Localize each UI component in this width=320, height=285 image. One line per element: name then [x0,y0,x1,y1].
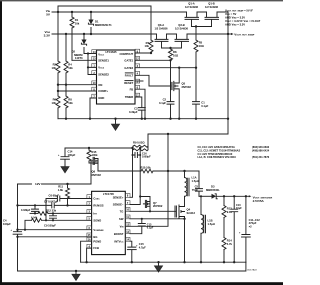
capacitor C6 68pF COSC [46,193,92,220]
ground symbol top section [115,119,117,124]
inductor L1A 1.5uH [183,170,199,196]
svg-text:1/2 Si4936: 1/2 Si4936 [185,5,199,9]
svg-text:D2: D2 [72,49,76,53]
U1 pin 14 VCC1 [92,50,105,57]
svg-text:R8: R8 [68,97,72,101]
svg-text:C3: C3 [134,106,138,110]
capacitor C5 75pF [192,171,203,196]
svg-text:2N7002: 2N7002 [92,173,102,177]
svg-text:MBRM: MBRM [74,53,83,57]
op-amp U1 LTC1645 hot swap controller box [97,50,136,104]
capacitor C1 0.1uF [193,68,209,119]
resistor R7 10k COMPOUT pullup [135,40,153,54]
svg-text:R7: R7 [146,41,150,45]
svg-text:C15: C15 [139,242,144,246]
svg-text:470μF: 470μF [249,221,257,225]
svg-text:10Ω: 10Ω [173,54,179,58]
svg-text:TIMER: TIMER [125,95,133,99]
resistor R4 10k [64,34,73,96]
svg-text:C1: C1 [201,100,205,104]
wire SENSE- column [130,148,140,205]
svg-text:C5: C5 [195,185,199,189]
svg-text:BG: BG [93,235,97,239]
U1 pin 6 FB [130,85,140,91]
wire ON to divider [58,84,97,86]
wire switcher input rail [65,147,132,149]
svg-text:0.039μF: 0.039μF [21,209,31,212]
wire BG [18,236,92,238]
svg-text:Q1-A: Q1-A [188,1,194,5]
diode D2 MBRM140T3 [72,34,97,60]
svg-text:75pF: 75pF [192,188,199,192]
svg-text:(561) 241-7876: (561) 241-7876 [252,156,270,159]
wire VCC2/SENSE2 link [88,54,97,75]
capacitor C11 C12 470uF output [239,196,260,262]
svg-text:SENSE–: SENSE– [113,203,124,207]
wire top rail to R7 [58,6,151,40]
svg-text:R12 33k: R12 33k [46,209,57,213]
resistor R11 1.8k softstart pullup [58,183,70,206]
wire COMP+ to divider [58,90,97,92]
svg-text:R1: R1 [75,18,79,22]
resistor R15 100k [87,148,98,163]
U2 pin 10 TG [120,208,130,214]
svg-text:6.04k: 6.04k [31,216,38,219]
note top right conditions text [225,9,261,27]
svg-text:RESET: RESET [124,81,133,85]
U1 pin 11 TIMER [125,93,140,99]
svg-text:Q5: Q5 [182,82,186,86]
svg-text:1/2 Si4936: 1/2 Si4936 [205,5,219,9]
transistor Q3-B 1/2 Si4936 [175,23,189,48]
svg-text:4.7μF: 4.7μF [139,246,146,250]
svg-text:D1: D1 [95,19,99,23]
svg-text:0.1μF: 0.1μF [159,101,166,105]
wire GATE1 [135,59,171,61]
resistor R2 10k [52,12,60,96]
svg-text:BOOST: BOOST [114,232,124,236]
svg-text:SGND: SGND [93,218,101,222]
svg-text:Q4: Q4 [187,208,191,212]
wire SENSE+ column [130,148,133,197]
svg-text:12V: 12V [35,182,41,186]
wire VOSENSE [18,229,92,231]
svg-text:10k: 10k [52,66,57,70]
wire SW [130,218,185,220]
svg-text:PGND: PGND [93,239,101,243]
resistor R9 0.02 ohm sense [132,141,148,151]
wire FB to ground bus [135,89,145,119]
wire FAULT to Q5 gate [135,75,171,86]
inductor L1B 1.5uH [200,195,215,262]
capacitor C3 0.39uF TIMER [129,97,145,119]
svg-text:D3: D3 [211,184,215,188]
resistor R5 10 ohm Q1 gate [194,27,205,68]
capacitor C8 0.039uF [21,204,39,214]
svg-text:L1A, B: COILTRONICS VP2-0016: L1A, B: COILTRONICS VP2-0016 [198,156,237,159]
wire Q6 source to R10 rail [98,170,141,172]
svg-text:Q3-A: Q3-A [158,23,164,27]
svg-text:1.5μH: 1.5μH [192,179,199,183]
svg-text:R15: R15 [92,150,97,154]
U2 pin 8 SENSE+ [113,194,130,200]
transistor Q6 2N7002 [91,157,101,184]
wire ground bus bottom section [81,261,246,263]
U1 pin 2 SENSE2 [92,71,110,77]
svg-text:3.3V: 3.3V [44,34,51,38]
wire VIN 5V rail [52,11,228,13]
U2 pin 2 RUN/SS [87,202,104,208]
svg-text:C14: C14 [68,150,73,154]
ground symbol C14 [64,165,66,167]
capacitor C2 0.1uF [159,60,174,118]
U1 pin 9 COMPOUT [119,49,139,56]
U2 pin 1 COSC [87,195,100,201]
wire VIN2 3.3V rail [52,33,228,35]
svg-text:C6 68pF: C6 68pF [49,193,60,197]
svg-text:100k: 100k [92,153,98,157]
svg-text:SENSE+: SENSE+ [113,195,124,199]
transistor Q7 2N7002 [139,195,163,212]
svg-text:140T3: 140T3 [75,56,83,60]
svg-text:10Ω: 10Ω [199,44,205,48]
svg-text:C11–C12: C11–C12 [249,218,261,222]
U2 pin 11 SW [119,215,130,221]
U1 pin 8 COMP+ [92,87,109,93]
U1 pin 12 GATE1 [124,57,139,63]
svg-text:GATE1: GATE1 [124,58,133,62]
svg-text:R5: R5 [199,41,203,45]
svg-text:10k: 10k [68,101,73,105]
resistor R8a 10k [64,96,73,119]
ground symbol outer return [75,271,77,274]
svg-text:10μF: 10μF [236,207,242,210]
border top edge [0,0,283,1]
wire GATE2 [135,67,196,69]
svg-text:R9 0.02Ω: R9 0.02Ω [133,141,145,145]
svg-text:R4: R4 [68,62,72,66]
svg-text:R10 10k: R10 10k [141,166,152,170]
capacitor C4 100uF 12V bypass [3,184,22,271]
svg-text:100μF: 100μF [68,153,76,157]
U2 pin 13 VIN [120,223,130,229]
capacitor C10 10uF [231,196,243,262]
svg-text:(408) 986-0424: (408) 986-0424 [252,149,270,152]
U2 pin 5 SGND [87,217,101,223]
U1 pin 4 FAULT [125,72,140,78]
svg-text:COMP+: COMP+ [98,89,108,93]
U2 pin 7 SENSE- [113,201,130,207]
junction dots on VIN2 rail [65,33,67,35]
resistor R13 9.1k [222,196,233,237]
svg-text:0.1μF: 0.1μF [147,226,154,229]
wire hot swap output to switcher VIN [148,134,228,144]
node VIN 5V label [46,9,51,17]
svg-text:10k: 10k [145,44,150,48]
U1 pin 10 ON [92,81,103,87]
svg-text:LTC1645: LTC1645 [105,50,117,54]
U1 pin 3 GATE2 [124,64,139,70]
svg-text:4.7k: 4.7k [227,242,233,246]
wire TG [130,210,175,212]
note parts list text [198,146,270,159]
svg-text:0.1μF: 0.1μF [201,104,208,108]
capacitor C7 0.047uF RUN/SS [16,200,91,208]
wire VIN column to LTC1735 [125,134,168,226]
svg-text:R2: R2 [53,62,57,66]
resistor R12 33k ITH [30,209,92,216]
border left edge [0,0,2,285]
U1 pin 13 SENSE1 [92,57,110,63]
svg-text:Si4412: Si4412 [187,211,196,215]
svg-text:C9 100pF: C9 100pF [44,224,56,228]
wire FCB to bus [87,248,92,262]
svg-text:1/2 Si4936: 1/2 Si4936 [175,27,189,31]
U2 pin 15 BG [87,233,98,239]
junction dots bottom ground bus [131,261,133,263]
svg-text:SW: SW [119,217,124,221]
svg-text:MBR0520LT1: MBR0520LT1 [95,23,112,27]
capacitor C9 100pF ITH filter [44,212,57,227]
resistor R8 10 ohm Q3 gate [169,48,179,60]
svg-text:FCB: FCB [93,246,99,250]
svg-text:2.5V/5A: 2.5V/5A [253,199,265,203]
wire SENSE1 to R1 [72,59,97,61]
svg-text:2N7002: 2N7002 [182,85,192,89]
wire GND pin to bus [90,98,97,119]
U2 pin 6 VOSENSE [87,226,104,232]
svg-text:C2: C2 [163,98,167,102]
svg-text:Q6: Q6 [92,170,96,174]
svg-text:C4: C4 [3,218,7,222]
U1 pin 1 VCC2 [92,64,105,70]
wire PGND to bus [81,241,92,262]
svg-text:10k: 10k [52,101,57,105]
svg-text:L1B: L1B [208,219,213,223]
svg-text:1000pF: 1000pF [142,156,151,159]
wire outer return bus [18,262,246,271]
svg-text:Q7: Q7 [153,201,157,205]
svg-text:GND: GND [98,96,104,100]
svg-text:ON: ON [98,83,102,87]
wire ground bus top section [58,118,228,120]
svg-text:Q3-B: Q3-B [178,23,184,27]
svg-text:SENSE1: SENSE1 [98,58,109,62]
svg-text:L1A: L1A [192,176,197,180]
svg-text:1/2 Si4936: 1/2 Si4936 [154,27,168,31]
svg-text:TG: TG [120,209,124,213]
wire SGND [25,219,92,230]
resistor R1 10k (pullup from 5V) [70,12,80,60]
svg-text:SENSE2: SENSE2 [98,73,109,77]
svg-text:R6: R6 [53,97,57,101]
resistor R6 10k [52,96,60,119]
svg-text:1.8k: 1.8k [58,188,64,192]
svg-text:10k: 10k [75,21,80,25]
transistor Q3-A 1/2 Si4936 [154,23,168,48]
wire VOUT_HOT_SWAP vertical [227,12,229,134]
svg-text:0.39μF: 0.39μF [129,110,138,114]
capacitor C16 1000pF sense filter [132,153,152,159]
svg-text:2N7002: 2N7002 [153,204,163,208]
svg-text:R8: R8 [173,50,177,54]
wire Q4 drain to L1A [184,196,186,262]
U1 pin 7 GND [92,94,105,100]
wire RESET stub [135,80,143,82]
U2 pin 12 BOOST [114,230,130,236]
junction dots on VIN rail [57,11,59,13]
svg-text:R14: R14 [227,238,232,242]
wire Q3 gate bus [162,47,182,49]
diode D1 MBR0520LT1 [88,12,112,34]
U2 pin 3 ITH [87,210,97,216]
svg-text:10k: 10k [68,66,73,70]
svg-text:FAULT: FAULT [125,73,134,77]
op-amp U2 LTC1735 switching regulator box [92,191,126,254]
svg-text:RUN/SS: RUN/SS [93,204,103,208]
transistor Q1-A 1/2 Si4936 [185,1,199,26]
node VOUT_HOT_SWAP label [228,32,255,36]
capacitor C13 0.1uF boost [130,219,154,234]
U2 pin 4 FCB [87,244,99,250]
svg-text:R13: R13 [227,206,232,210]
node 12V label [18,182,92,186]
svg-text:1645 TA03: 1645 TA03 [247,269,257,272]
wire switcher output rail [216,195,249,197]
transistor Q5 2N7002 [171,67,192,119]
svg-text:MBR0530L: MBR0530L [206,188,220,192]
wire Q1 gate bus [192,26,212,28]
U2 pin 16 PGND [87,237,101,243]
U1 pin 5 RESET [124,79,139,85]
svg-text:LTC1735: LTC1735 [103,192,115,196]
resistor R14 4.7k [222,238,233,263]
svg-text:GATE2: GATE2 [124,66,133,70]
svg-text:FB: FB [130,87,134,91]
node VOUT_SWITCHER label [249,195,273,203]
svg-text:100μF: 100μF [3,222,11,226]
svg-text:COMPOUT: COMPOUT [119,52,133,56]
capacitor C14 100uF input [58,148,76,165]
svg-text:1.5μH: 1.5μH [208,222,215,226]
svg-text:R11: R11 [58,184,63,188]
transistor Q1-B 1/2 Si4936 [205,1,219,26]
svg-text:VIN1 = 5V: VIN1 = 5V [225,12,236,16]
transistor Q4 Si4412 [175,205,196,218]
resistor R10 10k [141,166,185,173]
wire 12V feed to C5 [185,170,200,172]
svg-text:VOUT = 3.3V IF VIN1 = FLOAT: VOUT = 3.3V IF VIN1 = FLOAT [225,19,261,23]
U2 pin 14 INTVCC [114,237,130,243]
svg-text:Q1-B: Q1-B [208,1,214,5]
node VIN2 3.3V label [44,30,51,38]
svg-text:C7 0.047μF: C7 0.047μF [44,200,59,204]
border bottom edge [0,282,283,285]
diode D3 MBR0530L [199,184,220,198]
capacitor C15 4.7uF INTVCC [127,241,146,262]
svg-text:×2: ×2 [249,225,253,229]
ground symbol bottom bus [158,262,160,266]
